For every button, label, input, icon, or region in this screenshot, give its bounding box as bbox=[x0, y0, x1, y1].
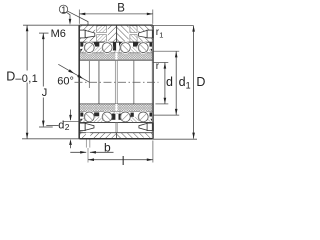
cage block between balls 1-2 bbox=[94, 43, 99, 47]
cage block left end upper bbox=[80, 43, 83, 47]
dimension d2 leader bbox=[46, 124, 58, 126]
rib wedge right end bbox=[147, 48, 153, 53]
left face line bbox=[77, 25, 79, 139]
bore seam line right bbox=[116, 60, 118, 104]
bottom face / extension line bbox=[22, 138, 79, 140]
nipple top-right bbox=[147, 30, 153, 38]
svg-text:d: d bbox=[166, 75, 173, 89]
ball 2 bbox=[102, 43, 112, 53]
cage block center left bbox=[113, 42, 116, 50]
ball pockets bottom bbox=[83, 111, 95, 123]
dimension D right bbox=[193, 26, 195, 139]
bore edge top bbox=[79, 59, 152, 61]
svg-text:b: b bbox=[104, 140, 111, 154]
60 degree contact angle bbox=[88, 61, 90, 88]
svg-text:60°: 60° bbox=[57, 75, 74, 87]
ball pockets top bbox=[83, 42, 95, 54]
inner band bottom edge bbox=[79, 111, 152, 113]
M6 cone top-left bbox=[85, 30, 95, 37]
outer band top line bottom half bbox=[79, 121, 152, 123]
bottom right notch bbox=[144, 136, 147, 139]
flange band hatch right bbox=[117, 133, 153, 139]
rib wedge between balls 3-4 bbox=[130, 47, 139, 53]
inner ring band bottom bbox=[79, 104, 152, 112]
centerline bbox=[75, 81, 159, 83]
outer ring top band hatch right bbox=[117, 25, 153, 42]
flange band hatch left bbox=[79, 133, 116, 139]
dimension d bbox=[153, 61, 168, 63]
dimension l bbox=[87, 148, 89, 163]
slot 2 plug upper bbox=[130, 26, 137, 33]
cone top-right bbox=[139, 30, 148, 37]
cone bottom-right bbox=[139, 123, 147, 130]
ball contact marks top bbox=[86, 45, 92, 51]
callout leader 2 bbox=[68, 11, 88, 25]
cage block left end lower bbox=[80, 49, 83, 53]
svg-text:1: 1 bbox=[61, 5, 66, 15]
callout leader arrow bbox=[67, 12, 71, 19]
rib wedge center left bbox=[112, 51, 117, 53]
dimension B bbox=[78, 10, 80, 24]
rib wedges bottom bbox=[93, 117, 104, 123]
svg-text:J: J bbox=[42, 87, 48, 99]
dimension b bbox=[70, 151, 86, 153]
cage block between balls 3-4 bbox=[133, 43, 138, 47]
bore line left hole bbox=[98, 60, 100, 104]
dimension D-0,1 bbox=[26, 25, 28, 70]
ball contact marks bottom bbox=[86, 114, 92, 120]
svg-text:D: D bbox=[6, 70, 15, 84]
rib wedge between balls 1-2 bbox=[94, 47, 104, 53]
rib wedge center bottom half left bbox=[112, 112, 117, 114]
svg-text:B: B bbox=[117, 3, 125, 15]
svg-text:2: 2 bbox=[65, 122, 70, 132]
svg-text:M6: M6 bbox=[51, 28, 66, 40]
rib wedge center bottom half right bbox=[117, 112, 123, 114]
slot 2 plug lower bbox=[130, 35, 137, 42]
callout 1 circle bbox=[59, 5, 67, 13]
dimension J bbox=[42, 33, 44, 86]
balls bottom bbox=[84, 112, 94, 122]
top band bottom line bbox=[79, 41, 152, 43]
svg-text:1: 1 bbox=[159, 30, 163, 39]
svg-text:D: D bbox=[196, 75, 205, 89]
nipple bottom-right bbox=[147, 123, 153, 131]
right face line bbox=[151, 25, 153, 139]
outer ring top band hatch left bbox=[79, 25, 116, 42]
OD surface lines in relief band bbox=[79, 122, 81, 132]
svg-text:–0,1: –0,1 bbox=[15, 73, 38, 85]
M6 nipple top-left bbox=[79, 30, 85, 38]
seam gap inner band top bbox=[115, 53, 117, 60]
dimension d1 bbox=[153, 50, 179, 52]
top face / extension line bbox=[23, 24, 79, 26]
ball 3 bbox=[120, 43, 130, 53]
lube hole slot 1 bbox=[95, 25, 108, 43]
cage blocks bottom bbox=[80, 113, 83, 117]
ball 1 bbox=[84, 43, 94, 53]
slot 1 plug upper bbox=[97, 26, 107, 33]
inner ring band top bbox=[79, 53, 152, 60]
cage block center right bbox=[119, 42, 122, 50]
nipple bottom-left bbox=[79, 123, 85, 131]
bore line right hole bbox=[133, 60, 135, 104]
rib wedge center right bbox=[117, 51, 123, 53]
svg-text:d: d bbox=[179, 75, 186, 89]
ball 4 bbox=[138, 43, 148, 53]
bottom slot hidden lines bbox=[85, 139, 87, 147]
cage block right end lower bbox=[150, 49, 153, 53]
bottom slot bbox=[86, 133, 90, 139]
inner ring seam top band bbox=[116, 25, 118, 42]
d2 dimension arrows bbox=[70, 110, 72, 120]
cage block right end upper bbox=[150, 43, 153, 47]
svg-text:1: 1 bbox=[186, 81, 191, 91]
slot 1 plug lower bbox=[97, 35, 107, 42]
rib wedge left end bbox=[80, 48, 86, 53]
M6 bar bbox=[39, 32, 49, 34]
svg-text:l: l bbox=[122, 156, 125, 167]
bore seam line left bbox=[114, 60, 116, 104]
lube hole slot 2 bbox=[129, 25, 139, 43]
cone bottom-left bbox=[85, 123, 94, 130]
